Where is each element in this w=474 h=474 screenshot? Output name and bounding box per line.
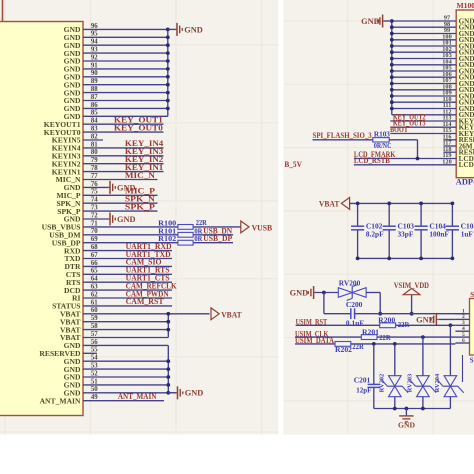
pin 117 26M_XTALI (module): wire, number, name	[444, 145, 457, 147]
pin 95 GND: stub, number, name, wire	[83, 36, 168, 38]
pin 75 MIC_P: stub, number, name, wire	[83, 194, 158, 196]
module M1001 body (right, cropped)	[456, 10, 474, 178]
svg-text:70: 70	[91, 228, 98, 235]
capacitor C201 12pF	[373, 344, 375, 384]
svg-text:57: 57	[91, 331, 98, 338]
wire R103 to LCD_FMARK net	[389, 139, 417, 141]
svg-text:62: 62	[91, 291, 98, 298]
pin 118 RESERVED (module): wire, number, name	[444, 151, 457, 153]
svg-text:8.2pF: 8.2pF	[366, 230, 384, 239]
power port VBAT (left panel)	[211, 307, 219, 320]
resistor R202 22R	[335, 342, 351, 347]
svg-text:B_5V: B_5V	[284, 160, 302, 169]
pin 86 GND: stub, number, name, wire	[83, 107, 168, 109]
TVS diode RV202	[394, 344, 396, 376]
pin 102 GND (module): wire, number, name	[392, 51, 456, 53]
svg-text:M1001: M1001	[457, 1, 474, 10]
pin 109 GND (module): wire, number, name	[392, 95, 456, 97]
svg-text:R103: R103	[374, 130, 390, 139]
pin 69 USB_DP: stub, number, name, wire	[83, 242, 233, 244]
pin 49 ANT_MAIN: stub, number, name, wire	[83, 400, 164, 402]
svg-text:RV200: RV200	[339, 279, 361, 288]
svg-text:49: 49	[91, 394, 98, 401]
svg-text:100nF: 100nF	[429, 230, 449, 239]
pin 78 KEYIN1: stub, number, name, wire	[83, 171, 164, 173]
pin 119 LCD_FMARK (module): wire, number, name	[354, 158, 456, 160]
wire USIM_RST to R200	[296, 324, 380, 326]
pin 67 TXD: stub, number, name, wire	[83, 258, 172, 260]
svg-text:GND: GND	[398, 422, 415, 430]
pin 113 KEY_OUT2 (module): wire, number, name	[390, 120, 456, 122]
svg-text:64: 64	[91, 276, 98, 283]
svg-text:80: 80	[91, 149, 98, 156]
svg-text:SPI_FLASH_SIO_3: SPI_FLASH_SIO_3	[313, 131, 372, 140]
svg-text:88: 88	[91, 86, 98, 93]
svg-text:92: 92	[91, 54, 98, 61]
svg-text:71: 71	[91, 220, 98, 227]
power ground symbol (right panel top)	[384, 20, 392, 22]
SIM pin 6 stub	[455, 342, 469, 344]
svg-text:96: 96	[91, 23, 98, 30]
GND rail below caps	[358, 257, 453, 259]
svg-text:GND: GND	[290, 288, 309, 297]
pin 68 RXD: stub, number, name, wire	[83, 250, 172, 252]
SIM connector J1 body (cropped right)	[470, 299, 474, 356]
svg-text:83: 83	[91, 126, 98, 133]
TVS diode RV203	[422, 337, 424, 376]
svg-text:72: 72	[91, 212, 98, 219]
svg-text:VUSB: VUSB	[252, 223, 273, 232]
svg-text:87: 87	[91, 94, 98, 101]
svg-text:0R: 0R	[194, 234, 202, 243]
junction DATA/C201	[372, 342, 376, 346]
pin 90 GND: stub, number, name, wire	[83, 76, 168, 78]
pin 88 GND: stub, number, name, wire	[83, 92, 168, 94]
svg-text:60: 60	[91, 307, 98, 314]
svg-text:GND: GND	[185, 389, 204, 398]
svg-text:74: 74	[91, 197, 98, 204]
svg-text:91: 91	[91, 62, 98, 69]
wire R200 to SIM pin3	[396, 324, 456, 326]
pin 103 GND (module): wire, number, name	[392, 58, 456, 60]
svg-text:120: 120	[442, 158, 451, 165]
pin 105 GND (module): wire, number, name	[392, 70, 456, 72]
pin 58 VBAT: stub, number, name, wire	[83, 329, 168, 331]
GND bus vertical (pins 97-112)	[391, 21, 393, 115]
wire R202 to SIM pin6	[351, 343, 456, 345]
pin 60 VBAT: stub, number, name, wire	[83, 313, 210, 315]
left schematic panel background	[0, 0, 278, 435]
pin 79 KEYIN2: stub, number, name, wire	[83, 163, 164, 165]
GND bus vertical (pins 56-50)	[167, 345, 169, 392]
junction on LCD_FMARK	[416, 157, 420, 161]
pin 59 VBAT: stub, number, name, wire	[83, 321, 168, 323]
pin 111 GND (module): wire, number, name	[392, 108, 456, 110]
pin 83 KEYOUT0: stub, number, name, wire	[83, 131, 164, 133]
svg-text:68: 68	[91, 244, 98, 251]
svg-text:USB_DP: USB_DP	[203, 234, 232, 243]
resistor R102 0R (USB_DP)	[178, 240, 193, 245]
svg-text:VBAT: VBAT	[221, 310, 242, 319]
svg-text:C201: C201	[354, 376, 371, 385]
resistor R201 22R	[361, 335, 377, 340]
pin 85 GND: stub, number, name, wire	[83, 115, 168, 117]
pin 89 GND: stub, number, name, wire	[83, 84, 168, 86]
junction node left of RV200	[322, 291, 326, 295]
GND bus vertical (pins 96-85)	[167, 29, 169, 116]
svg-text:1uF: 1uF	[461, 230, 474, 239]
svg-text:55: 55	[91, 347, 98, 354]
svg-text:65: 65	[91, 268, 98, 275]
svg-text:GND: GND	[416, 315, 435, 324]
pin 77 MIC_N: stub, number, name, wire	[83, 179, 158, 181]
pin 116 RESERVED (module): wire, number, name	[444, 139, 457, 141]
svg-text:73: 73	[91, 205, 98, 212]
svg-text:LCD_RSTB: LCD_RSTB	[459, 161, 474, 169]
junction dots on GND bus	[166, 28, 170, 32]
resistor R200 22R	[380, 323, 396, 328]
pin 72 GND: stub, number, name, wire	[83, 218, 109, 220]
pin 107 GND (module): wire, number, name	[392, 83, 456, 85]
pin 97 GND (module): wire, number, name	[392, 20, 456, 22]
svg-text:CAM_RST: CAM_RST	[126, 297, 165, 306]
svg-text:LCD_RSTB: LCD_RSTB	[354, 156, 391, 165]
pin 65 CTS: stub, number, name, wire	[83, 273, 172, 275]
pin 114 KEY_OUT3 (module): wire, number, name	[390, 126, 456, 128]
svg-text:GND: GND	[184, 25, 203, 34]
pin 52 GND: stub, number, name, wire	[83, 376, 168, 378]
TVS diode RV204	[449, 325, 451, 375]
GND rail under TVS diodes	[374, 408, 451, 410]
svg-text:75: 75	[91, 189, 98, 196]
VSIM_VDD rail to SIM pin 1	[380, 313, 469, 315]
svg-text:6: 6	[462, 338, 465, 344]
svg-text:VBAT: VBAT	[319, 199, 340, 208]
svg-text:SIM1: SIM1	[470, 291, 474, 299]
junction dots lower GND bus	[166, 359, 170, 363]
svg-text:ANT_MAIN: ANT_MAIN	[40, 396, 81, 405]
svg-text:69: 69	[91, 236, 98, 243]
pin 71 USB_VBUS: stub, number, name, wire	[83, 226, 241, 228]
svg-text:61: 61	[91, 299, 98, 306]
pin 93 GND: stub, number, name, wire	[83, 52, 168, 54]
pin 76 GND: stub, number, name, wire	[83, 186, 109, 188]
svg-text:12pF: 12pF	[356, 386, 371, 395]
wire USIM_DATA to R202	[295, 343, 335, 345]
pin 106 GND (module): wire, number, name	[392, 76, 456, 78]
SIM pin 1 stub	[455, 313, 469, 315]
svg-text:R201: R201	[362, 328, 379, 337]
pin 73 SPK_P: stub, number, name, wire	[83, 210, 158, 212]
junction CLK/RV203	[421, 335, 425, 339]
power ground symbol GND (top left)	[168, 28, 176, 30]
svg-text:94: 94	[91, 39, 98, 46]
svg-text:BOOT: BOOT	[390, 125, 409, 134]
SIM pin 2 stub	[455, 318, 469, 320]
pin 92 GND: stub, number, name, wire	[83, 60, 168, 62]
svg-text:85: 85	[91, 110, 98, 117]
svg-text:MIC_N: MIC_N	[125, 171, 155, 180]
VBAT bus vertical (pins 60-57)	[167, 314, 169, 338]
svg-text:77: 77	[91, 173, 98, 180]
svg-text:C200: C200	[346, 300, 363, 309]
svg-text:ADP-50: ADP-50	[456, 178, 474, 187]
junction dots right GND bus	[390, 19, 394, 23]
svg-text:89: 89	[91, 78, 98, 85]
pin 55 RESERVED: stub, number, name, wire	[83, 352, 97, 354]
pin 104 GND (module): wire, number, name	[392, 64, 456, 66]
pin 57 VBAT: stub, number, name, wire	[83, 337, 168, 339]
svg-text:81: 81	[91, 141, 98, 148]
SIM pin 3 stub	[455, 324, 469, 326]
pin 66 DTR: stub, number, name, wire	[83, 265, 172, 267]
pin 110 GND (module): wire, number, name	[392, 101, 456, 103]
svg-text:54: 54	[91, 355, 98, 362]
junction RV200/rail	[378, 312, 382, 316]
svg-text:SPK_P: SPK_P	[125, 202, 155, 211]
pin 74 SPK_N: stub, number, name, wire	[83, 202, 158, 204]
IC U1 module body (left, cropped)	[0, 22, 83, 416]
svg-text:78: 78	[91, 165, 98, 172]
svg-text:SIM-8: SIM-8	[470, 357, 474, 365]
junction VSIM_VDD/rail	[410, 312, 414, 316]
capacitor C103 33pF	[388, 203, 390, 226]
svg-text:RV203: RV203	[407, 374, 414, 393]
resistor R100 22R (USB_VBUS)	[178, 225, 193, 230]
pin 51 GND: stub, number, name, wire	[83, 384, 168, 386]
pin 53 GND: stub, number, name, wire	[83, 368, 168, 370]
capacitor C105 1uF	[451, 203, 453, 226]
junction RST/RV204	[449, 323, 453, 327]
earth ground symbol GND (bottom)	[405, 409, 407, 416]
pin 50 GND: stub, number, name, wire	[83, 392, 176, 394]
wire SPI_FLASH_SIO_3 to R103	[313, 139, 373, 141]
svg-text:59: 59	[91, 315, 98, 322]
pin 84 KEYOUT1: stub, number, name, wire	[83, 123, 164, 125]
pin 108 GND (module): wire, number, name	[392, 89, 456, 91]
pin 101 GND (module): wire, number, name	[392, 45, 456, 47]
svg-text:ANT_MAIN: ANT_MAIN	[118, 392, 157, 401]
svg-text:RV202: RV202	[379, 374, 386, 393]
svg-text:33pF: 33pF	[398, 230, 414, 239]
svg-text:52: 52	[91, 370, 98, 377]
pin 120 LCD_RSTB (module): wire, number, name	[354, 164, 456, 166]
power ground symbol (pin 76)	[108, 186, 110, 188]
svg-text:RV204: RV204	[434, 373, 441, 392]
svg-text:KEY_OUT0: KEY_OUT0	[114, 123, 163, 132]
power ground symbol (left of RV200)	[314, 292, 316, 294]
pin 99 GND (module): wire, number, name	[392, 33, 456, 35]
wire GND to RV200	[315, 292, 339, 294]
svg-text:79: 79	[91, 157, 98, 164]
capacitor C200 0.1uF	[324, 313, 351, 315]
svg-text:93: 93	[91, 47, 98, 54]
pin 54 GND: stub, number, name, wire	[83, 360, 168, 362]
svg-text:50: 50	[91, 386, 98, 393]
SIM pin 4 stub	[455, 330, 469, 332]
wire RV200 right to rail	[366, 292, 380, 294]
pin 61 STATUS: stub, number, name, wire	[83, 305, 172, 307]
junction dots VBAT bus	[166, 312, 170, 316]
capacitor C104 100nF	[420, 203, 422, 226]
right schematic panel background	[283, 0, 474, 435]
svg-text:R200: R200	[378, 315, 395, 324]
pin 98 GND (module): wire, number, name	[392, 26, 456, 28]
svg-text:R202: R202	[335, 345, 352, 354]
SIM pin 5 stub	[455, 336, 469, 338]
pin 70 USB_DM: stub, number, name, wire	[83, 234, 233, 236]
wire (red) cropped element top-left	[2, 0, 4, 22]
power port VUSB	[241, 220, 249, 233]
VBAT rail	[350, 202, 453, 204]
pin 100 GND (module): wire, number, name	[392, 39, 456, 41]
svg-text:63: 63	[91, 284, 98, 291]
svg-text:0R/NC: 0R/NC	[374, 141, 392, 150]
pin 62 RI: stub, number, name, wire	[83, 297, 172, 299]
svg-text:67: 67	[91, 252, 98, 259]
pin 91 GND: stub, number, name, wire	[83, 68, 168, 70]
pin 96 GND: stub, number, name, wire	[83, 28, 168, 30]
svg-text:82: 82	[91, 133, 98, 140]
pin 115 KEY_OUT4 (module): wire, number, name	[390, 133, 456, 135]
SIM bottom pin stub	[462, 355, 464, 382]
svg-text:58: 58	[91, 323, 98, 330]
pin 63 DCD: stub, number, name, wire	[83, 289, 172, 291]
junction DATA/RV202	[393, 342, 397, 346]
svg-text:GND: GND	[361, 17, 380, 26]
wire USIM_CLK to R201	[295, 336, 361, 338]
wire R201 to SIM pin5	[377, 336, 455, 338]
svg-text:66: 66	[91, 260, 98, 267]
power ground symbol (bottom left)	[168, 392, 176, 394]
svg-text:56: 56	[91, 339, 98, 346]
pin 82 KEYIN5: stub, number, name, wire	[83, 139, 103, 141]
svg-text:GND: GND	[117, 215, 136, 224]
capacitor C102 8.2pF	[357, 203, 359, 226]
pin 112 GND (module): wire, number, name	[392, 114, 456, 116]
resistor R103 0R/NC	[373, 138, 389, 142]
varistor RV200 (bidirectional TVS)	[338, 288, 366, 298]
pin 56 GND: stub, number, name, wire	[83, 344, 168, 346]
wire down to C200 branch	[323, 293, 325, 314]
pin 87 GND: stub, number, name, wire	[83, 100, 168, 102]
pin 80 KEYIN3: stub, number, name, wire	[83, 155, 164, 157]
pin 81 KEYIN4: stub, number, name, wire	[83, 147, 164, 149]
pin 64 RTS: stub, number, name, wire	[83, 281, 172, 283]
junction dots on TVS GND rail	[393, 407, 397, 411]
svg-text:86: 86	[91, 102, 98, 109]
pin 94 GND: stub, number, name, wire	[83, 44, 168, 46]
svg-text:51: 51	[91, 378, 98, 385]
svg-text:53: 53	[91, 363, 98, 370]
svg-text:90: 90	[91, 70, 98, 77]
svg-text:95: 95	[91, 31, 98, 38]
power ground symbol (pin 72)	[108, 218, 110, 220]
svg-text:76: 76	[91, 181, 98, 188]
power ground symbol (SIM pin2)	[437, 318, 439, 320]
svg-text:84: 84	[91, 118, 98, 125]
resistor R101 0R (USB_DM)	[178, 232, 193, 237]
